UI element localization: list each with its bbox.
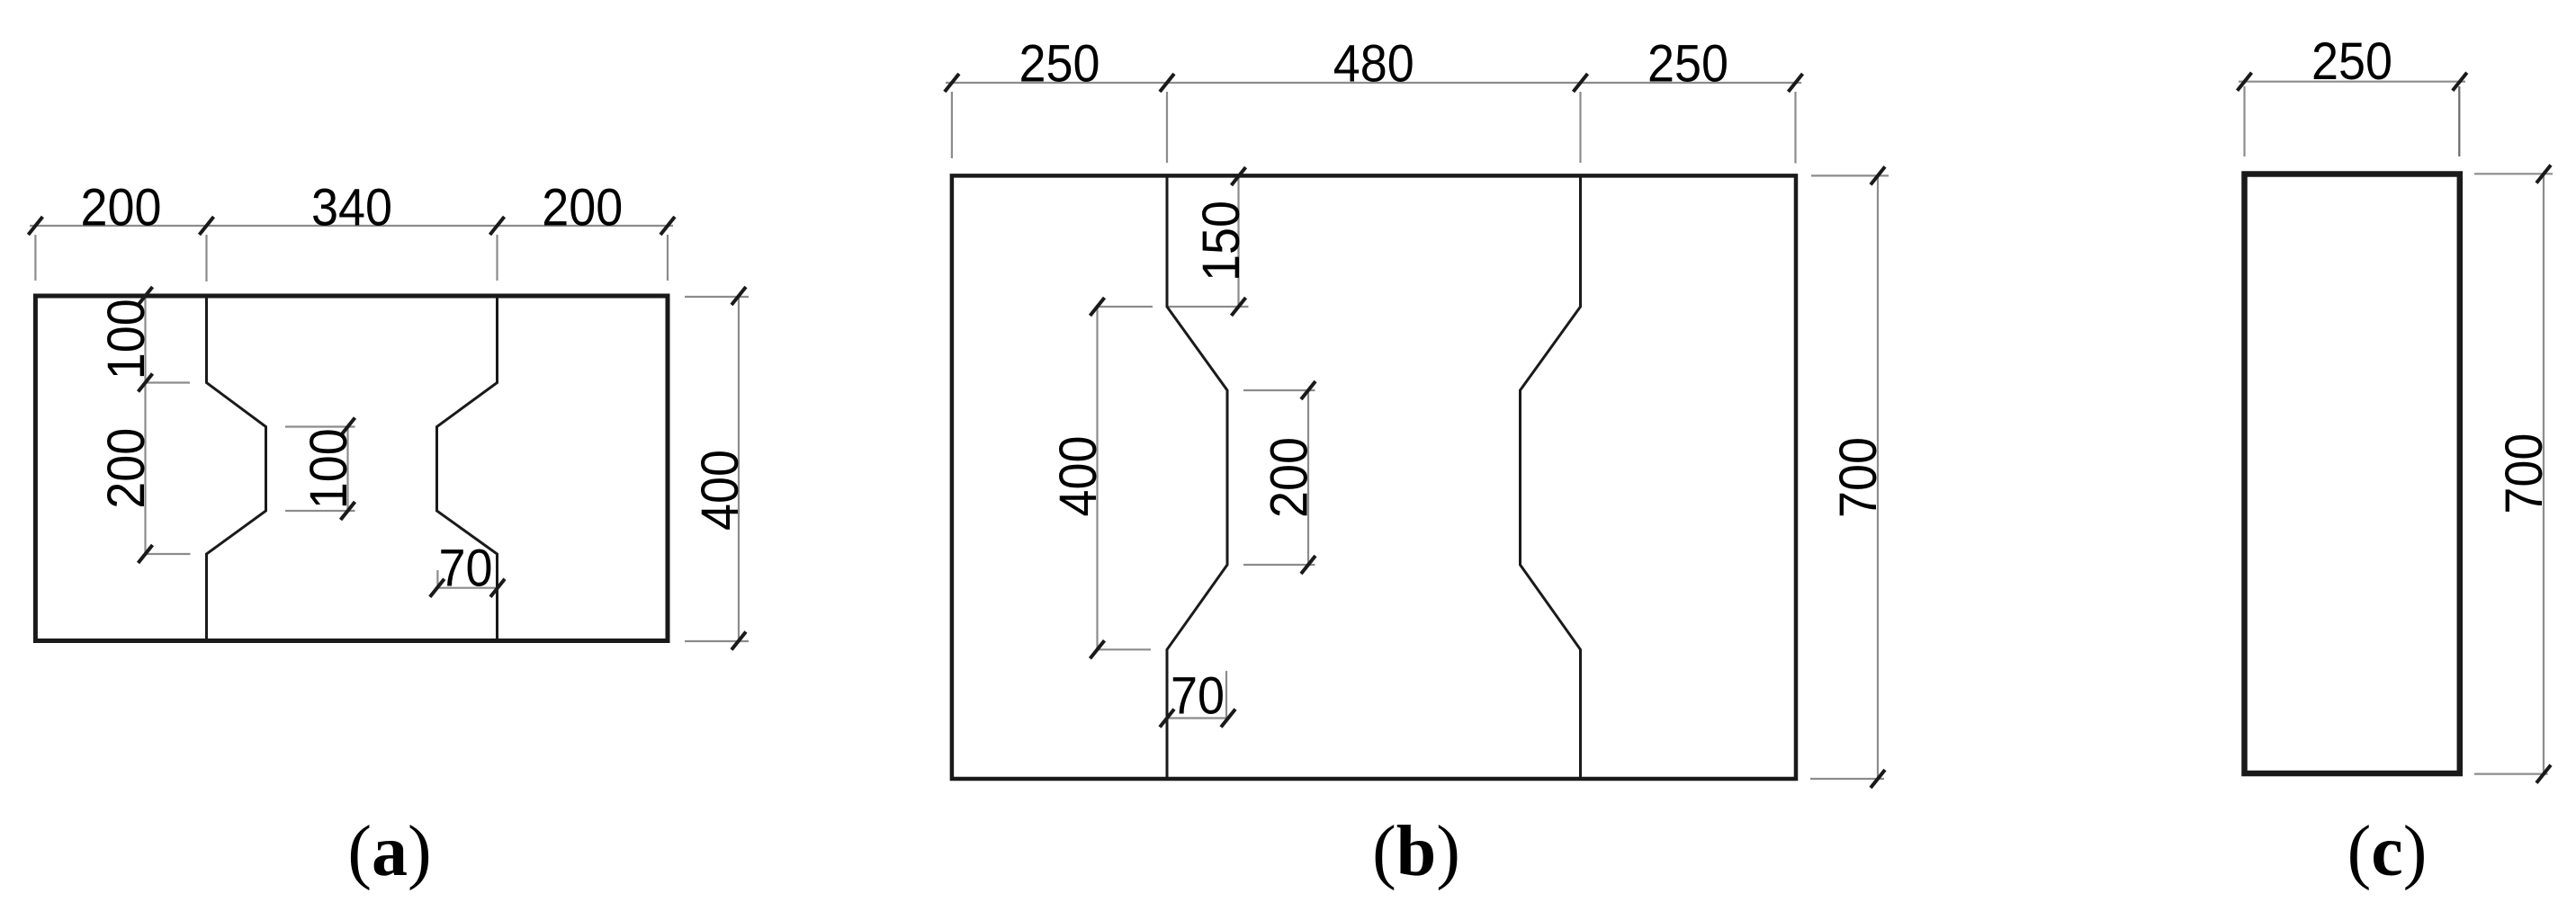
svg-text:200: 200 <box>1261 437 1319 518</box>
svg-text:250: 250 <box>2311 32 2392 91</box>
svg-text:100: 100 <box>97 299 156 380</box>
svg-text:200: 200 <box>81 179 162 237</box>
svg-text:200: 200 <box>97 428 156 509</box>
svg-text:400: 400 <box>1049 436 1108 517</box>
svg-text:200: 200 <box>542 179 623 237</box>
svg-text:340: 340 <box>311 179 392 237</box>
svg-text:700: 700 <box>1829 437 1888 518</box>
svg-text:(a): (a) <box>347 812 431 891</box>
svg-text:70: 70 <box>439 540 493 598</box>
svg-text:150: 150 <box>1192 201 1251 281</box>
svg-text:100: 100 <box>300 428 358 509</box>
svg-text:(b): (b) <box>1372 812 1460 891</box>
svg-text:400: 400 <box>691 450 749 531</box>
svg-text:250: 250 <box>1647 35 1728 94</box>
svg-text:480: 480 <box>1333 35 1414 94</box>
svg-text:(c): (c) <box>2347 812 2428 891</box>
svg-text:250: 250 <box>1019 35 1100 94</box>
svg-text:70: 70 <box>1171 667 1225 726</box>
svg-text:700: 700 <box>2495 433 2554 514</box>
